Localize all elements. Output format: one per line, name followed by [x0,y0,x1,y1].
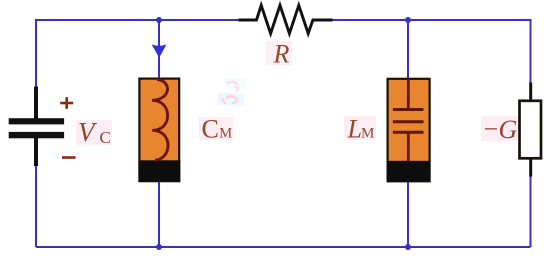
LM cap plate 3 [393,131,424,134]
wire top-right segment [332,20,531,21]
wire branch LM lower [407,182,409,248]
capacitor VC top plate [9,118,64,124]
wire right upper [530,20,532,83]
LM cap top lead [407,80,410,110]
CM box black bar [139,160,181,181]
wire branch LM upper [407,20,409,80]
watermark remnant marks [218,78,247,105]
-G box [520,101,542,159]
junction node bottom-right [405,244,411,250]
junction node top-right [405,17,411,23]
junction node bottom-left [156,244,162,250]
plus sign [60,97,73,109]
svg-text:C: C [100,128,111,147]
svg-text:R: R [273,39,290,68]
minus sign [62,156,76,159]
label halo tints [76,41,518,145]
capacitor VC bottom lead [34,137,38,166]
svg-text:L: L [347,114,362,143]
LM cap bottom lead [407,132,410,161]
capacitor VC bottom plate [9,132,64,138]
capacitor VC top lead [34,87,38,121]
-G top lead [529,83,532,102]
svg-text:M: M [219,126,232,142]
current arrow into CM [152,44,167,57]
wire right lower [530,176,532,247]
svg-text:C: C [202,114,219,143]
wire branch CM lower [158,181,160,247]
wire top-left segment [36,20,240,21]
wire left lower [35,166,37,247]
LM cap plate 1 [393,108,424,111]
LM box [388,79,430,182]
svg-text:G: G [499,115,518,144]
-G bottom lead [529,158,532,176]
CM box [139,79,179,182]
CM coil [152,80,168,161]
junction node top-left [156,17,162,23]
wire left upper [35,20,37,87]
svg-text:−: − [484,114,499,143]
LM cap plate 2 [393,120,424,123]
svg-text:M: M [361,126,374,142]
wire branch CM upper [158,20,160,80]
resistor R [239,5,333,33]
LM box black bar [387,161,430,182]
wire bottom [36,246,531,248]
